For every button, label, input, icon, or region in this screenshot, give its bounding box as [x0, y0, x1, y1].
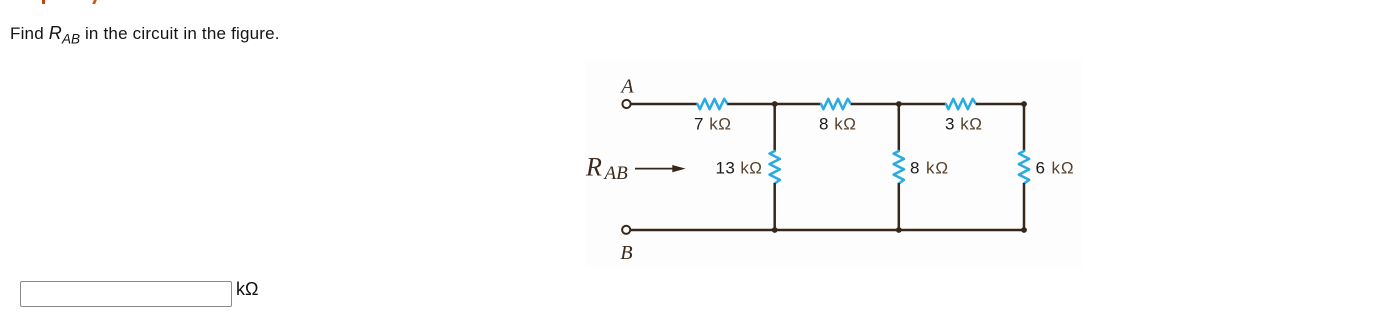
- wire R 8k vertical to bottom wire: [898, 183, 901, 230]
- terminal B: [622, 226, 630, 234]
- wire bottom B to bottom-right corner: [631, 229, 1026, 232]
- resistor 7 kOhm: [698, 99, 728, 109]
- wire R 7k to node C: [728, 103, 822, 106]
- resistor 3 kOhm: [946, 99, 976, 109]
- node bottom junction dot under 8k: [896, 227, 902, 233]
- wire node C down to R 13k: [773, 104, 776, 152]
- figure background: [585, 60, 1082, 267]
- svg-text:6 kΩ: 6 kΩ: [1036, 158, 1075, 177]
- label 8 kOhm vertical: [910, 158, 949, 177]
- wire R 6k to bottom-right corner: [1023, 183, 1026, 231]
- node D top junction dot: [896, 101, 902, 107]
- node top-right corner dot: [1021, 101, 1027, 107]
- svg-text:3 kΩ: 3 kΩ: [945, 115, 982, 134]
- label kOhm after answer box: [236, 279, 258, 300]
- heading: Find RAB in the circuit in the figure.: [10, 23, 280, 47]
- wire A to R 7k: [631, 103, 698, 106]
- svg-text:8 kΩ: 8 kΩ: [910, 158, 949, 177]
- wire R 3k to top-right corner: [976, 103, 1025, 106]
- label B: [620, 242, 632, 264]
- svg-text:8 kΩ: 8 kΩ: [819, 115, 856, 134]
- node bottom junction dot under 13k: [772, 227, 778, 233]
- node bottom-right corner dot: [1021, 227, 1027, 233]
- arrow RAB pointing to circuit: [635, 165, 686, 172]
- label 8 kOhm top: [819, 115, 856, 134]
- node C top junction dot: [772, 101, 778, 107]
- resistor 6 kOhm: [1019, 151, 1029, 184]
- label 6 kOhm: [1036, 158, 1075, 177]
- cut-off red heading fragment 1: [42, 0, 45, 4]
- terminal A: [622, 100, 630, 108]
- svg-text:AB: AB: [603, 163, 629, 184]
- svg-text:A: A: [619, 76, 634, 98]
- wire node D down to R 8k vertical: [898, 104, 901, 152]
- svg-text:B: B: [620, 242, 632, 264]
- label 13 kOhm: [716, 158, 763, 177]
- wire R 8k to node D: [851, 103, 946, 106]
- wire top-right corner down to R 6k: [1023, 103, 1026, 152]
- resistor 13 kOhm: [770, 151, 780, 184]
- svg-text:7 kΩ: 7 kΩ: [694, 115, 731, 134]
- label 3 kOhm: [945, 115, 982, 134]
- label RAB: [585, 153, 628, 184]
- label 7 kOhm: [694, 115, 731, 134]
- svg-text:13 kΩ: 13 kΩ: [716, 158, 763, 177]
- resistor 8 kOhm vertical: [894, 151, 904, 184]
- svg-text:R: R: [585, 153, 602, 182]
- answer input box: [20, 281, 232, 308]
- label A: [619, 76, 634, 98]
- resistor 8 kOhm top: [821, 99, 851, 109]
- wire R 13k to bottom wire: [773, 183, 776, 230]
- cut-off red heading fragment 2: [92, 0, 96, 4]
